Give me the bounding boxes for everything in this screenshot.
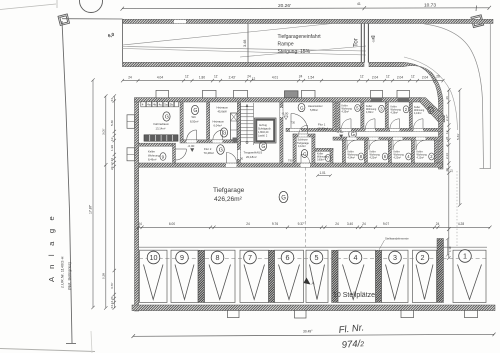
- svg-text:26: 26: [445, 96, 449, 100]
- parking stalls top line: [139, 246, 488, 248]
- svg-text:12: 12: [252, 77, 256, 81]
- svg-text:24: 24: [128, 75, 132, 79]
- building south wall (bottom of garage): [132, 305, 495, 311]
- svg-text:24: 24: [436, 222, 440, 226]
- Keller room bottom-left top wall: [139, 143, 173, 146]
- svg-text:7: 7: [248, 253, 252, 262]
- svg-text:3.00′: 3.00′: [102, 128, 106, 135]
- bottom dimension line: [132, 333, 496, 338]
- svg-text:24: 24: [246, 222, 250, 226]
- svg-text:1.80: 1.80: [199, 75, 205, 79]
- footing 4 below south wall: [465, 310, 478, 317]
- svg-text:45,6kW: 45,6kW: [218, 110, 228, 114]
- svg-text:(Not. Beilngries): (Not. Beilngries): [67, 261, 72, 290]
- svg-text:Lastkl. 2: Lastkl. 2: [258, 135, 268, 138]
- top row room texts: [342, 105, 425, 116]
- stall divider posts (hatched): [198, 239, 443, 303]
- dashed axis line through garage: [305, 167, 307, 247]
- building outer right wall: [439, 116, 444, 169]
- svg-text:426,26m²: 426,26m²: [214, 196, 243, 203]
- Schleuse left wall: [293, 134, 296, 163]
- scan artifact bottom-left fold line: [91, 331, 92, 353]
- svg-text:4,12m²: 4,12m²: [298, 145, 306, 148]
- elevator text: [258, 124, 272, 138]
- svg-text:3.40: 3.40: [347, 222, 353, 226]
- window shaft on left wall 2: [127, 148, 135, 161]
- svg-text:17.87′: 17.87′: [89, 205, 93, 214]
- svg-text:41: 41: [357, 2, 361, 6]
- Schleuse top wall: [293, 134, 315, 137]
- boundary end tick bottom: [66, 343, 76, 345]
- window shaft on top wall 4 (dark): [285, 91, 299, 98]
- svg-text:8: 8: [216, 253, 220, 262]
- svg-text:G: G: [219, 148, 223, 154]
- svg-text:A n l a g e: A n l a g e: [47, 213, 56, 282]
- Hausmeister circled label: [298, 103, 305, 111]
- Schleuse circled label: [301, 150, 307, 158]
- top row door arcs: [342, 119, 424, 129]
- svg-text:4,13m²: 4,13m²: [414, 112, 422, 115]
- svg-text:0,38: 0,38: [102, 273, 106, 279]
- svg-text:4.01: 4.01: [272, 75, 278, 79]
- Treppenhaus text: [244, 151, 263, 159]
- svg-text:1.01: 1.01: [320, 171, 326, 175]
- svg-text:Rampe: Rampe: [278, 42, 294, 48]
- WC room circled label: [191, 105, 198, 114]
- svg-text:G: G: [193, 108, 197, 114]
- chimney block: [231, 113, 238, 140]
- svg-text:4,35m²: 4,35m²: [342, 111, 350, 114]
- svg-text:70,48m²: 70,48m²: [204, 151, 215, 155]
- svg-text:4.04: 4.04: [157, 75, 163, 79]
- svg-text:24 12 24: 24 12 24: [110, 296, 114, 308]
- Tiefgarage label: [213, 187, 245, 203]
- bottom row room texts: [348, 151, 428, 160]
- svg-text:G: G: [281, 196, 286, 202]
- Flur2 to garage door arc: [226, 153, 236, 164]
- ramp bottom wall: [123, 62, 365, 66]
- svg-text:4,13m²: 4,13m²: [417, 157, 425, 160]
- boundary circle (well): [80, 0, 103, 13]
- right dim line outer: [458, 88, 461, 206]
- window shaft on top wall 2: [203, 90, 217, 97]
- fence line from marker to ramp: [62, 18, 123, 20]
- svg-text:10: 10: [150, 253, 158, 262]
- interior wall between WC and Heizraum: [207, 102, 210, 140]
- WC door arc: [187, 130, 197, 140]
- svg-text:Fahrradraum: Fahrradraum: [154, 122, 170, 126]
- Schleuse door arc top: [299, 125, 308, 134]
- rooms/garage separating wall: [139, 163, 443, 167]
- svg-text:2.14: 2.14: [445, 153, 449, 159]
- bottom row circled numbers: [358, 153, 434, 160]
- window shaft on top wall 1: [156, 90, 169, 97]
- svg-text:Wohnung: Wohnung: [148, 154, 160, 158]
- svg-text:1,10: 1,10: [448, 246, 452, 252]
- svg-text:-0,00: -0,00: [188, 144, 195, 148]
- Schleuse right wall: [312, 134, 315, 163]
- interior wall south of WC and Heizraum: [180, 140, 241, 143]
- driveway outer curve: [424, 24, 484, 169]
- left dim line outer: [91, 78, 94, 309]
- svg-text:24: 24: [247, 74, 251, 78]
- stall numbers: [150, 252, 468, 263]
- top row partition walls: [337, 102, 413, 128]
- svg-text:11′: 11′: [110, 137, 114, 141]
- footing 3 below south wall: [401, 310, 414, 317]
- svg-text:8,50m²: 8,50m²: [190, 119, 198, 123]
- gate (Tor) leaves: [361, 24, 368, 63]
- WC room text: [190, 115, 198, 123]
- svg-text:Tor: Tor: [353, 37, 360, 47]
- tiny digits in boxes: [142, 103, 174, 107]
- svg-text:Keller: Keller: [148, 150, 155, 154]
- Flur 2 circled label: [217, 145, 225, 155]
- top dimension line: [121, 6, 492, 12]
- dashed axis line right: [456, 171, 458, 246]
- Treppenhaus circled label: [259, 142, 266, 151]
- small numbered boxes row (top of room A): [141, 102, 179, 107]
- svg-text:Tiefgarage: Tiefgarage: [213, 187, 245, 194]
- dashed line through stall circles: [139, 257, 487, 259]
- stall V markings: [144, 265, 482, 300]
- Hausmeister right wall: [333, 102, 336, 132]
- Heizraum text: [213, 106, 229, 128]
- top row circled numbers: [355, 105, 434, 114]
- dark locker band room A: [144, 135, 178, 141]
- Keller room bottom-left text: [148, 150, 160, 162]
- left dim line inner: [113, 94, 116, 309]
- stairs: [241, 103, 254, 145]
- boundary marker stone top-right: [471, 15, 484, 28]
- Flur 1 text: [318, 123, 329, 131]
- scan artifact top-left faint line: [0, 0, 57, 10]
- svg-text:-0,00: -0,00: [372, 36, 376, 43]
- left dim middle labels: [102, 128, 106, 279]
- garage small dim 1.01: [316, 174, 332, 177]
- window shaft on top wall 6: [371, 90, 383, 102]
- svg-text:1.54: 1.54: [308, 75, 314, 79]
- svg-text:4,36m²: 4,36m²: [391, 112, 399, 115]
- garage circled label: [279, 191, 288, 202]
- ramp bottom wall after gate, curving to building corner: [369, 62, 443, 121]
- svg-text:5.30: 5.30: [110, 120, 114, 126]
- svg-text:T30: T30: [291, 121, 296, 125]
- svg-text:6: 6: [286, 253, 290, 262]
- svg-text:12: 12: [450, 169, 454, 173]
- Hausmeister bottom wall: [286, 128, 336, 131]
- svg-text:5.31′: 5.31′: [456, 133, 460, 140]
- Schleuse door arc bottom: [301, 154, 310, 163]
- Keller room bottom-left circled label: [160, 153, 166, 161]
- svg-text:20.26′: 20.26′: [278, 3, 291, 9]
- svg-text:Tiefgarageneinfahrt: Tiefgarageneinfahrt: [278, 34, 322, 40]
- stall number circles: [147, 250, 471, 264]
- svg-text:24: 24: [335, 222, 339, 226]
- ramp slope lines: [123, 24, 366, 58]
- window shaft on top wall 7: [397, 90, 410, 102]
- ramp top wall: [123, 19, 494, 23]
- room A text: [154, 122, 170, 131]
- svg-text:Heizraum: Heizraum: [213, 120, 225, 124]
- svg-text:6,04m²: 6,04m²: [214, 124, 222, 128]
- svg-text:24 12 24: 24 12 24: [110, 158, 114, 170]
- garage dimension line: [137, 226, 492, 229]
- garage dim labels: [138, 222, 464, 226]
- svg-text:G: G: [261, 144, 265, 150]
- dark door sill near chimney: [233, 138, 240, 143]
- svg-text:2.43′: 2.43′: [229, 75, 236, 79]
- svg-text:5a: 5a: [164, 103, 168, 107]
- stall boxes: [140, 250, 487, 302]
- svg-text:1: 1: [463, 252, 467, 261]
- bottom row door arcs: [347, 140, 426, 150]
- svg-text:2.04: 2.04: [372, 75, 378, 79]
- svg-text:4c: 4c: [159, 103, 163, 107]
- property boundary line left: [62, 21, 72, 343]
- svg-text:6.00: 6.00: [169, 222, 175, 226]
- Flur 2 text: [204, 147, 215, 155]
- svg-text:Hausmeister: Hausmeister: [308, 104, 323, 108]
- interior wall between room A and WC: [180, 102, 183, 140]
- Keller block top row bottom wall: [336, 128, 443, 131]
- svg-text:10 Stellplätze: 10 Stellplätze: [333, 292, 375, 299]
- right dim inner labels: [445, 96, 454, 173]
- footing 2 below south wall: [295, 310, 307, 318]
- svg-text:3.48: 3.48: [243, 40, 247, 47]
- svg-text:11′: 11′: [411, 74, 415, 78]
- svg-text:4,23m²: 4,23m²: [370, 157, 378, 160]
- footing 1 below south wall: [228, 310, 240, 317]
- svg-text:30.49°: 30.49°: [303, 330, 313, 334]
- svg-text:T90: T90: [288, 159, 293, 163]
- room A circled label: [163, 112, 170, 121]
- Keller room bottom-left door arc: [176, 149, 187, 160]
- svg-text:2.04: 2.04: [422, 75, 428, 79]
- lobby door arc to stairwell: [291, 114, 308, 131]
- svg-text:G: G: [300, 106, 304, 112]
- svg-text:26: 26: [445, 136, 449, 140]
- svg-text:4,34m²: 4,34m²: [348, 157, 356, 160]
- ramp section line 3.48: [247, 24, 249, 63]
- Heizraum door arc: [213, 130, 223, 140]
- svg-text:2: 2: [421, 253, 425, 262]
- stairs walk-line arrow: [246, 141, 248, 143]
- small Keller room text: [317, 153, 328, 162]
- building outer left wall: [135, 98, 139, 311]
- Schleuse text: [297, 139, 309, 149]
- ramp text block: [278, 34, 322, 55]
- building chamfer wall top-right: [420, 98, 445, 122]
- dim labels below ramp: [128, 74, 440, 81]
- svg-text:11′: 11′: [386, 74, 390, 78]
- svg-text:Heizraum: Heizraum: [217, 106, 229, 110]
- svg-text:0,83m²: 0,83m²: [317, 159, 325, 162]
- svg-text:4: 4: [354, 253, 358, 262]
- svg-text:24: 24: [110, 98, 114, 102]
- svg-text:15,89m²: 15,89m²: [318, 127, 329, 131]
- dimension line below ramp: [121, 79, 445, 82]
- svg-text:20,18m²: 20,18m²: [246, 155, 257, 159]
- svg-text:4,23m²: 4,23m²: [394, 157, 402, 160]
- bottom row partition walls: [342, 140, 437, 163]
- svg-text:1.99: 1.99: [110, 145, 114, 151]
- svg-text:z.UR.Nr. 1140/2-H: z.UR.Nr. 1140/2-H: [60, 256, 65, 288]
- svg-text:9.76: 9.76: [272, 222, 278, 226]
- stairwell left wall: [237, 102, 240, 163]
- svg-text:11′: 11′: [185, 74, 189, 78]
- svg-text:G: G: [303, 151, 307, 156]
- svg-text:4a: 4a: [147, 103, 151, 107]
- svg-text:8,46m²: 8,46m²: [148, 158, 156, 162]
- svg-text:11′: 11′: [445, 130, 449, 134]
- svg-text:24: 24: [299, 74, 303, 78]
- svg-text:9.37′: 9.37′: [298, 222, 305, 226]
- svg-text:26: 26: [445, 168, 449, 172]
- svg-text:26: 26: [436, 74, 440, 78]
- left dim inner labels: [110, 98, 114, 309]
- svg-text:13,14m²: 13,14m²: [156, 127, 166, 131]
- small dim 1,10 at stall 1: [446, 237, 449, 256]
- Hausmeister text: [308, 104, 323, 112]
- driveway inner curve: [404, 57, 458, 130]
- svg-text:5b: 5b: [170, 103, 174, 107]
- svg-text:Steigung: 15%: Steigung: 15%: [278, 49, 311, 55]
- svg-text:G: G: [165, 115, 169, 121]
- scan artifact bottom-left faint line: [0, 349, 95, 352]
- small Keller room right wall: [330, 148, 333, 163]
- svg-text:4b: 4b: [153, 103, 157, 107]
- svg-text:24: 24: [138, 222, 142, 226]
- section arrow A: [304, 278, 311, 285]
- svg-text:4,36m²: 4,36m²: [366, 111, 374, 114]
- Keller room bottom-left right wall: [173, 143, 176, 163]
- svg-text:2.17′: 2.17′: [445, 114, 449, 121]
- small Keller room circled label: [325, 155, 331, 162]
- svg-text:5: 5: [315, 253, 319, 262]
- Heizraum circled label: [220, 128, 227, 137]
- elevator shaft: [255, 118, 277, 143]
- small Keller room right of Schleuse top wall: [315, 148, 333, 151]
- building outer top wall: [135, 98, 421, 102]
- stairwell right wall: [280, 102, 283, 163]
- right dim line inner: [447, 88, 450, 259]
- svg-text:G: G: [222, 131, 226, 137]
- Keller block bottom row top wall: [333, 137, 443, 140]
- window shaft on top wall 3: [234, 90, 248, 97]
- svg-text:9.07: 9.07: [383, 222, 389, 226]
- svg-text:11′: 11′: [360, 74, 364, 78]
- window shaft on top wall 5: [302, 90, 316, 97]
- corridor circled label G: [349, 129, 357, 139]
- svg-text:WC: WC: [192, 115, 197, 119]
- svg-text:24: 24: [362, 222, 366, 226]
- boundary marker stone top-left: [58, 14, 70, 26]
- svg-text:3: 3: [393, 253, 397, 262]
- driveway curve end tick: [480, 168, 491, 170]
- svg-text:3.70′: 3.70′: [110, 282, 114, 289]
- ramp left edge: [122, 19, 124, 66]
- svg-text:Stellwandelemente: Stellwandelemente: [385, 236, 409, 240]
- svg-text:4.28: 4.28: [458, 222, 464, 226]
- left dim line middle: [104, 94, 107, 309]
- svg-text:9: 9: [180, 253, 184, 262]
- svg-text:11′: 11′: [214, 74, 218, 78]
- svg-text:5,85m²: 5,85m²: [310, 108, 318, 112]
- window shaft on left wall 1: [127, 115, 135, 129]
- svg-text:10.73: 10.73: [424, 2, 436, 8]
- svg-text:2.04: 2.04: [397, 75, 403, 79]
